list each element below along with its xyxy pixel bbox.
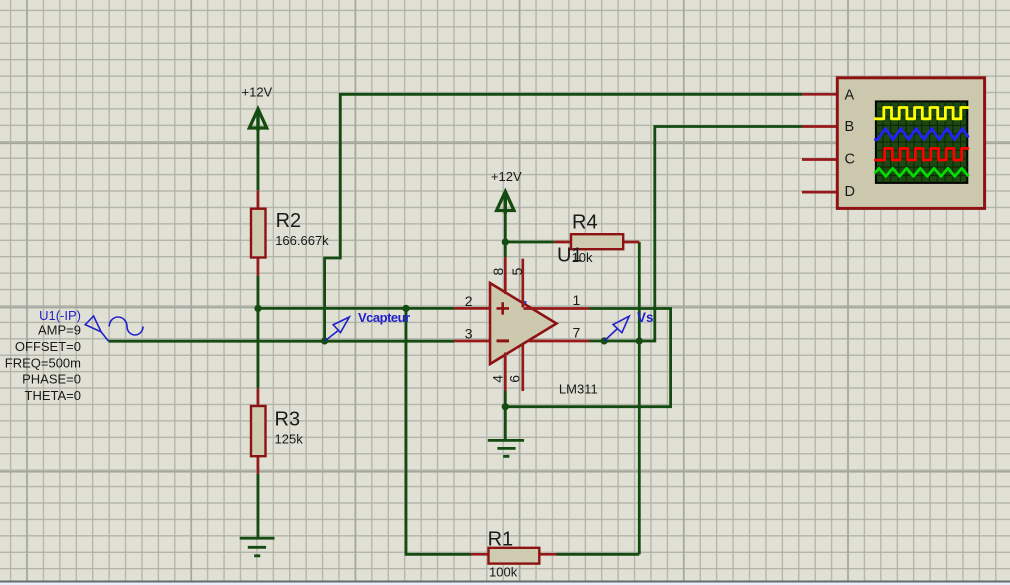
svg-text:7: 7 bbox=[573, 325, 581, 341]
svg-text:2: 2 bbox=[465, 293, 473, 309]
svg-text:PHASE=0: PHASE=0 bbox=[22, 372, 81, 387]
svg-text:8: 8 bbox=[490, 268, 506, 276]
svg-text:Vcapteur: Vcapteur bbox=[358, 310, 410, 325]
svg-text:LM311: LM311 bbox=[559, 382, 598, 397]
svg-text:OFFSET=0: OFFSET=0 bbox=[15, 339, 81, 354]
svg-text:4: 4 bbox=[489, 375, 505, 383]
svg-text:Vs: Vs bbox=[637, 310, 654, 325]
svg-text:5: 5 bbox=[509, 268, 525, 276]
svg-text:166.667k: 166.667k bbox=[275, 233, 329, 248]
svg-text:U1: U1 bbox=[557, 245, 583, 267]
svg-text:+12V: +12V bbox=[491, 169, 522, 184]
svg-text:1: 1 bbox=[573, 292, 581, 308]
svg-text:U1(-IP): U1(-IP) bbox=[39, 308, 81, 323]
svg-text:R3: R3 bbox=[275, 409, 301, 431]
svg-text:125k: 125k bbox=[275, 431, 304, 446]
svg-text:A: A bbox=[845, 88, 855, 104]
svg-text:R2: R2 bbox=[276, 210, 302, 232]
svg-text:B: B bbox=[845, 119, 855, 135]
svg-text:100k: 100k bbox=[489, 565, 518, 580]
svg-text:+12V: +12V bbox=[242, 85, 273, 100]
svg-text:C: C bbox=[845, 152, 855, 168]
svg-text:3: 3 bbox=[465, 325, 473, 341]
svg-text:FREQ=500m: FREQ=500m bbox=[5, 355, 81, 370]
svg-text:D: D bbox=[845, 184, 855, 200]
svg-text:R1: R1 bbox=[488, 528, 514, 550]
svg-text:AMP=9: AMP=9 bbox=[38, 323, 81, 338]
svg-text:THETA=0: THETA=0 bbox=[25, 388, 81, 403]
svg-text:R4: R4 bbox=[572, 212, 598, 234]
svg-text:6: 6 bbox=[506, 375, 522, 383]
